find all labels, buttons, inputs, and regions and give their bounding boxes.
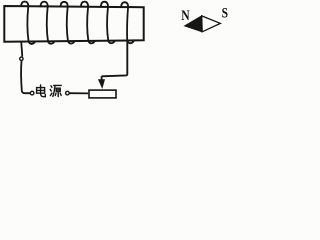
compass needle: N half (filled)	[185, 16, 203, 32]
coil turn 3	[61, 2, 75, 44]
solenoid core (rectangle)	[4, 6, 143, 42]
slider arrow onto rheostat	[101, 76, 103, 80]
wire: battery to rheostat	[70, 92, 89, 94]
coil turn 6	[121, 2, 133, 44]
coil turn 4	[81, 2, 95, 44]
电	[41, 85, 46, 97]
wire: left lead from coil bottom down to switch	[20, 42, 23, 57]
coil turn 1 (arc + front strand + bottom hook)	[21, 2, 35, 44]
源	[51, 86, 52, 88]
svg-text:S: S	[222, 6, 228, 22]
rheostat body (box)	[89, 90, 116, 98]
coil turn 5	[101, 2, 115, 44]
svg-text:N: N	[181, 8, 190, 24]
wire: slider to coil right lead	[102, 44, 128, 76]
wire: switch down to battery row	[21, 61, 30, 93]
coil turn 2	[41, 2, 55, 44]
battery left terminal (circle)	[30, 91, 34, 95]
label 电源 (power supply), drawn as strokes	[37, 85, 62, 97]
compass needle: S half (outline)	[202, 16, 221, 32]
battery right terminal (circle)	[66, 91, 70, 95]
switch pivot terminal (circle)	[20, 57, 23, 60]
